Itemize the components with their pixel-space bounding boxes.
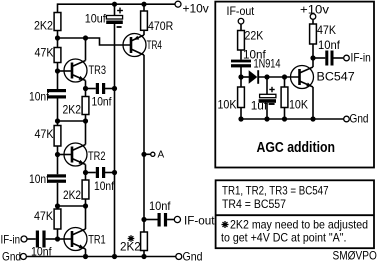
svg-text:47K: 47K [34, 209, 53, 223]
svg-text:10K: 10K [289, 98, 308, 112]
svg-text:1N914: 1N914 [254, 56, 281, 70]
svg-text:A: A [158, 149, 165, 160]
svg-text:TR2: TR2 [88, 149, 106, 163]
svg-text:IF-out: IF-out [227, 4, 255, 18]
svg-text:2K2: 2K2 [34, 19, 53, 33]
svg-text:Gnd: Gnd [2, 250, 21, 262]
svg-text:10nf: 10nf [29, 172, 50, 186]
svg-text:BC547: BC547 [317, 69, 356, 83]
svg-text:10uf: 10uf [85, 12, 107, 26]
svg-text:10nf: 10nf [318, 38, 341, 52]
svg-text:TR1: TR1 [88, 233, 106, 247]
svg-text:TR4: TR4 [147, 38, 163, 52]
svg-text:10nf: 10nf [94, 179, 115, 193]
svg-text:2K2: 2K2 [63, 103, 82, 117]
svg-text:2K2: 2K2 [63, 188, 81, 202]
svg-text:10nf: 10nf [29, 89, 50, 103]
svg-text:+10v: +10v [183, 1, 209, 15]
svg-text:Gnd: Gnd [350, 112, 369, 126]
svg-text:IF-in: IF-in [1, 233, 21, 247]
svg-text:10K: 10K [218, 98, 237, 112]
svg-text:IF-out: IF-out [184, 214, 215, 228]
svg-text:10nf: 10nf [92, 94, 113, 108]
svg-text:TR4 = BC557: TR4 = BC557 [222, 197, 286, 211]
svg-text:47K: 47K [35, 46, 54, 60]
svg-text:to get +4V DC at point "A".: to get +4V DC at point "A". [221, 230, 347, 244]
svg-text:SMØVPO: SMØVPO [333, 249, 377, 262]
svg-text:10nf: 10nf [149, 199, 171, 213]
svg-text:TR1, TR2, TR3 = BC547: TR1, TR2, TR3 = BC547 [222, 184, 329, 198]
svg-text:22K: 22K [245, 29, 264, 43]
svg-text:Gnd: Gnd [183, 250, 203, 262]
svg-text:47K: 47K [317, 23, 336, 37]
svg-text:AGC addition: AGC addition [257, 140, 336, 156]
svg-text:IF-in: IF-in [351, 51, 371, 65]
svg-text:1uf: 1uf [251, 99, 268, 113]
svg-text:TR3: TR3 [89, 63, 107, 77]
svg-text:470R: 470R [148, 19, 173, 33]
svg-text:+10v: +10v [300, 3, 329, 17]
svg-text:2K2: 2K2 [120, 240, 141, 254]
svg-text:47K: 47K [35, 127, 54, 141]
svg-text:10nf: 10nf [31, 244, 52, 258]
